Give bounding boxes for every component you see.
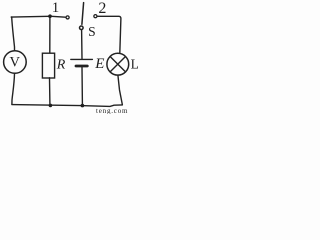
switch S blade [82, 3, 84, 25]
svg-text:teng.com: teng.com [96, 107, 128, 114]
wire bottom horizontal [12, 105, 123, 107]
battery E long plate [71, 58, 93, 60]
wire top-left horizontal [11, 15, 48, 18]
node junction dot bottom-middle (battery branch) [81, 104, 85, 108]
wire resistor to bottom [49, 78, 51, 104]
wire left branch down to voltmeter [12, 17, 15, 51]
lamp L cross [110, 57, 125, 72]
svg-text:S: S [88, 24, 96, 39]
wire battery to bottom [81, 68, 83, 105]
lamp L circle [107, 53, 129, 75]
switch S contact circle [80, 26, 84, 30]
svg-text:L: L [131, 57, 138, 72]
svg-text:2: 2 [98, 0, 106, 17]
svg-text:V: V [10, 54, 21, 70]
voltmeter V1 circle [4, 51, 27, 74]
terminal 2 binding post [94, 15, 97, 18]
resistor R box [42, 53, 54, 78]
battery E short plate [76, 65, 87, 68]
wire lamp to bottom [118, 75, 122, 104]
node junction dot bottom-left (resistor branch) [49, 104, 53, 108]
svg-text:1: 1 [52, 0, 60, 16]
wire junction down to resistor [49, 17, 51, 53]
node junction dot top (node 1 side) [48, 14, 52, 18]
wire terminal 2 to lamp top [97, 16, 121, 53]
wire switch to battery [81, 30, 83, 59]
wire dot to terminal 1 [52, 15, 66, 18]
wire voltmeter to bottom [12, 73, 15, 104]
terminal 1 binding post [66, 16, 69, 19]
svg-text:R: R [56, 57, 66, 72]
svg-text:E: E [94, 56, 104, 72]
